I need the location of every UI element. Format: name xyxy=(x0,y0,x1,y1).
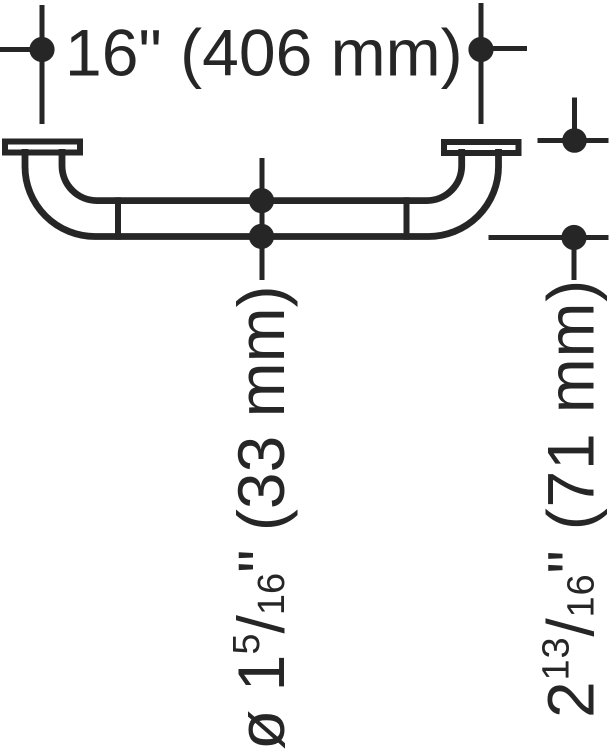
left flange xyxy=(5,142,80,153)
right dimension upper stub xyxy=(572,98,577,141)
left joint line xyxy=(115,197,121,240)
svg-text:16" (406 mm): 16" (406 mm) xyxy=(65,16,463,90)
top dimension right extension line xyxy=(479,3,484,124)
top dimension left extension line xyxy=(40,5,45,124)
right dimension upper dot xyxy=(562,128,587,153)
right flange xyxy=(444,142,519,153)
grab bar outer contour xyxy=(25,149,499,237)
svg-text:ø 15/16" (33 mm): ø 15/16" (33 mm) xyxy=(224,285,298,750)
right dimension lower line xyxy=(489,235,609,240)
right dimension lower dot xyxy=(561,225,586,250)
top dimension left dot xyxy=(29,37,54,62)
right dimension upper line xyxy=(538,138,609,143)
diameter top dot xyxy=(249,188,274,213)
top dimension left stub xyxy=(0,47,54,52)
right joint line xyxy=(404,197,410,240)
right dimension lower stub xyxy=(572,238,577,281)
diameter bottom dot xyxy=(249,224,274,249)
grab bar inner contour xyxy=(62,149,462,201)
diameter dimension line xyxy=(260,158,265,280)
top dimension right dot xyxy=(468,37,493,62)
top dimension right stub xyxy=(493,46,527,51)
